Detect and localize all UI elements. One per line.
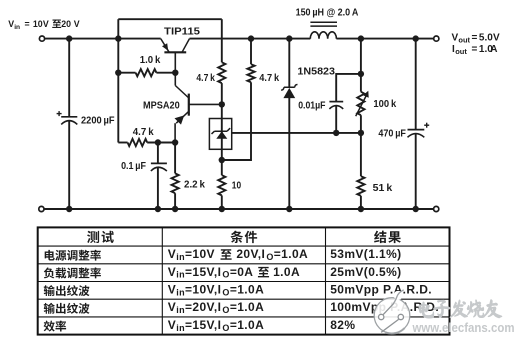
- watermark logo small circles and needle: [379, 304, 404, 333]
- svg-text:V: V: [168, 265, 176, 279]
- table row4 输出纹波: [44, 303, 55, 314]
- svg-text:10: 10: [232, 180, 241, 191]
- capacitor C1 2200uF: [68, 39, 70, 117]
- svg-text:O: O: [222, 305, 229, 315]
- output terminal Vout: [434, 36, 439, 41]
- svg-text:V: V: [168, 300, 176, 314]
- svg-text:=1.0A: =1.0A: [230, 318, 264, 332]
- resistor R4 4.7k vertical: [218, 62, 225, 83]
- capacitor C2 0.1uF: [157, 143, 159, 164]
- junction gnd / D1: [286, 206, 292, 212]
- svg-text:A: A: [490, 44, 497, 55]
- resistor R2 4.7k horizontal: [118, 142, 127, 144]
- svg-text:in: in: [176, 305, 185, 315]
- svg-text:4.7 k: 4.7 k: [196, 73, 215, 84]
- arrow Q1 emitter: [162, 43, 168, 51]
- svg-text:=20V,I: =20V,I: [185, 300, 221, 314]
- svg-text:20V,I: 20V,I: [236, 247, 265, 261]
- svg-text:=: =: [25, 19, 30, 29]
- svg-text:1.0 k: 1.0 k: [140, 55, 161, 66]
- svg-text:TIP115: TIP115: [164, 26, 201, 37]
- resistor R1 1.0k: [118, 72, 135, 74]
- svg-text:O: O: [266, 252, 273, 262]
- table row2 负载调整率: [44, 268, 55, 279]
- svg-text:V: V: [493, 33, 500, 44]
- svg-text:out: out: [458, 36, 470, 45]
- inductor L1 150uH: [310, 32, 336, 39]
- svg-text:O: O: [222, 323, 229, 333]
- table row1 电源调整率: [45, 250, 55, 261]
- table outer border: [38, 227, 450, 334]
- table column dividers: [161, 227, 163, 334]
- svg-text:V: V: [168, 318, 176, 332]
- svg-text:V: V: [168, 283, 176, 297]
- junction top rail / left branch: [115, 35, 121, 41]
- svg-text:150 µH @ 2.0 A: 150 µH @ 2.0 A: [296, 8, 359, 19]
- svg-text:V: V: [168, 247, 176, 261]
- junction divider top / C3: [358, 71, 364, 77]
- junction switch node / R6: [248, 35, 254, 41]
- svg-text:in: in: [14, 24, 20, 31]
- svg-text:=0A: =0A: [230, 265, 254, 279]
- arrow Q2 emitter: [175, 115, 185, 124]
- svg-text:10: 10: [33, 19, 43, 29]
- wire left branch down: [117, 39, 119, 143]
- input terminal Vin: [39, 36, 44, 41]
- junction gnd / C1: [66, 206, 72, 212]
- svg-text:in: in: [176, 323, 185, 333]
- svg-text:www.elecfans.com: www.elecfans.com: [412, 320, 515, 335]
- svg-text:O: O: [222, 270, 229, 280]
- watermark logo curl: [394, 291, 403, 300]
- svg-text:=1.0A: =1.0A: [230, 283, 264, 297]
- wire top loop left drop: [117, 19, 119, 38]
- junction R1 left: [115, 70, 121, 76]
- table header 测试: [87, 231, 99, 243]
- table row dividers: [38, 245, 450, 247]
- svg-text:=1.0A: =1.0A: [274, 247, 308, 261]
- resistor R6 4.7k to switch node: [247, 64, 254, 82]
- junction switch node / D1: [286, 35, 292, 41]
- svg-text:100 k: 100 k: [373, 99, 396, 110]
- wire switch node rail: [190, 38, 311, 40]
- output terminal return: [434, 206, 439, 211]
- junction gnd / C4: [413, 206, 419, 212]
- svg-text:=: =: [472, 44, 478, 55]
- svg-text:in: in: [176, 287, 185, 297]
- table header 结果: [374, 231, 386, 243]
- watermark logo circle: [374, 298, 410, 334]
- svg-text:0.1 µF: 0.1 µF: [121, 161, 146, 172]
- zener D2 inside U1: [221, 119, 223, 161]
- wire output rail: [336, 38, 433, 40]
- capacitor C3 0.01uF: [336, 74, 361, 102]
- junction feedback node: [358, 130, 364, 136]
- svg-text:in: in: [176, 252, 185, 262]
- junction U1 anode / R5 / R6 wire: [219, 157, 225, 163]
- junction gnd / R5: [219, 206, 225, 212]
- core bars L1: [310, 21, 337, 23]
- svg-text:=10V,I: =10V,I: [185, 283, 221, 297]
- svg-text:=10V: =10V: [185, 247, 215, 261]
- svg-text:53mV(1.1%): 53mV(1.1%): [330, 247, 401, 261]
- table header 条件: [231, 231, 243, 243]
- junction R2 / C2: [155, 139, 161, 145]
- svg-text:=15V,I: =15V,I: [185, 318, 221, 332]
- svg-text:2200 µF: 2200 µF: [81, 115, 115, 126]
- polarity + C1: [57, 113, 62, 115]
- svg-text:25mV(0.5%): 25mV(0.5%): [330, 265, 401, 279]
- junction Q2 base / R4 / U1 cathode: [219, 101, 225, 107]
- svg-text:1N5823: 1N5823: [297, 66, 335, 77]
- junction R2 / Q2 emitter / R3: [172, 139, 178, 145]
- resistor R3 2.2k: [174, 143, 176, 174]
- resistor R8 51k: [360, 133, 362, 176]
- svg-text:out: out: [455, 47, 467, 56]
- svg-text:=1.0A: =1.0A: [230, 300, 264, 314]
- svg-text:2.2 k: 2.2 k: [184, 179, 206, 190]
- svg-text:MPSA20: MPSA20: [143, 100, 180, 111]
- svg-text:5.0: 5.0: [479, 33, 493, 44]
- svg-text:V: V: [74, 19, 80, 29]
- resistor R5 10: [221, 160, 223, 175]
- transistor Q1 TIP115: [161, 39, 190, 73]
- op-amp U1 TL431 shunt regulator box: [209, 119, 231, 150]
- wire U1 reference to feedback node: [232, 132, 361, 134]
- junction gnd / R3: [172, 206, 178, 212]
- svg-text:=15V,I: =15V,I: [185, 265, 221, 279]
- svg-text:4.7 k: 4.7 k: [259, 73, 279, 84]
- wire Vin rail to Q1 emitter: [45, 38, 161, 40]
- arrow R7 wiper: [356, 95, 367, 116]
- svg-text:470 µF: 470 µF: [378, 129, 406, 140]
- svg-text:50mVpp P.A.R.D.: 50mVpp P.A.R.D.: [330, 283, 432, 297]
- svg-text:=: =: [472, 33, 478, 44]
- table row3 输出纹波: [44, 285, 55, 296]
- junction gnd / R8: [358, 206, 364, 212]
- svg-text:V: V: [43, 19, 49, 29]
- potentiometer R7 100k: [360, 39, 362, 92]
- capacitor C4 470uF: [415, 39, 417, 130]
- table row5 效率: [44, 321, 55, 332]
- wire top loop horizontal: [118, 18, 222, 20]
- svg-text:1.0A: 1.0A: [273, 265, 300, 279]
- junction output node / divider: [358, 35, 364, 41]
- svg-text:in: in: [176, 270, 185, 280]
- junction feedback / C3: [333, 130, 339, 136]
- svg-text:51 k: 51 k: [373, 183, 393, 194]
- diode D1 1N5823: [288, 39, 290, 88]
- wire top loop right drop (crosses rail): [221, 19, 223, 62]
- polarity + C4: [424, 124, 429, 126]
- watermark text 电子发烧友: [419, 302, 434, 318]
- junction output rail / C4: [413, 35, 419, 41]
- wire U1 anode to R6 bottom: [222, 82, 251, 160]
- svg-text:20: 20: [61, 19, 71, 29]
- watermark logo shade lower-right: [386, 328, 405, 333]
- input return terminal: [39, 206, 44, 211]
- junction R1 right / Q1 base / Q2 collector: [172, 70, 178, 76]
- svg-text:0.01µF: 0.01µF: [298, 101, 325, 112]
- svg-text:O: O: [222, 287, 229, 297]
- junction gnd / C2: [155, 206, 161, 212]
- svg-text:82%: 82%: [330, 318, 355, 332]
- transistor Q2 MPSA20: [175, 73, 222, 143]
- svg-text:4.7 k: 4.7 k: [133, 127, 154, 138]
- wire ground rail: [44, 208, 434, 210]
- junction top rail / C1 branch: [66, 35, 72, 41]
